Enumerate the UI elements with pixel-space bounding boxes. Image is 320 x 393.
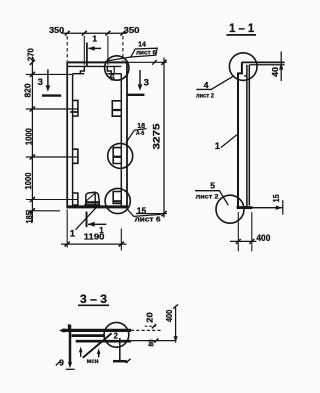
title underline 3-3 <box>78 304 109 306</box>
s33 400 arrowhead down <box>174 336 178 342</box>
s11 leader 5 <box>195 191 228 206</box>
svg-text:мсн: мсн <box>87 358 99 365</box>
svg-text:5: 5 <box>210 181 215 191</box>
hatched dome part <box>86 192 100 207</box>
s33 top flange <box>62 329 131 332</box>
s11 leader 4 <box>196 76 233 89</box>
svg-text:400: 400 <box>165 309 174 322</box>
svg-text:15: 15 <box>272 194 281 202</box>
detail circle B <box>105 188 130 213</box>
right shoulder line <box>107 73 121 75</box>
level line 820 <box>26 108 78 110</box>
s33 flange left end arrow <box>59 328 65 332</box>
svg-text:185: 185 <box>25 211 34 224</box>
svg-text:1000: 1000 <box>23 172 33 189</box>
s11 40 arrowhead <box>279 63 283 70</box>
s11 flange bottom <box>249 64 284 66</box>
inner right wall <box>120 74 122 206</box>
top extension lines <box>66 36 68 61</box>
inner left wall <box>72 74 74 206</box>
svg-text:лист 2: лист 2 <box>196 194 219 201</box>
svg-text:лист 6: лист 6 <box>135 216 161 223</box>
s11 plate left edge with hook <box>238 62 242 206</box>
left wall tab 2 <box>73 149 78 163</box>
svg-text:3: 3 <box>38 77 43 88</box>
s33 up arrowheads <box>79 347 83 353</box>
svg-text:2: 2 <box>114 332 119 341</box>
level line 1000b <box>26 199 78 201</box>
s33 detail circle <box>104 322 129 347</box>
part 1 leader <box>76 206 98 230</box>
right wall tab 3 <box>113 192 121 204</box>
neck left wall <box>80 66 84 73</box>
s11 plate inner line <box>244 65 247 207</box>
member outer left edge <box>66 62 68 208</box>
svg-text:А-6: А-6 <box>136 130 145 137</box>
svg-text:6: 6 <box>110 73 115 83</box>
svg-text:15: 15 <box>137 206 147 216</box>
svg-text:40: 40 <box>270 67 280 77</box>
bottom dimension 1190 <box>66 210 68 248</box>
s33 top flange dashed extension <box>131 329 161 331</box>
detail circle top-right <box>105 56 129 80</box>
section1 bottom arrowhead <box>88 222 95 227</box>
left wall tab 3 <box>73 193 78 205</box>
svg-text:20: 20 <box>145 312 154 323</box>
level line bottom <box>26 210 60 212</box>
s33 upper small dashed line <box>145 325 158 327</box>
flag 14 leader <box>109 48 158 60</box>
top dimension line 350/350 <box>61 32 126 34</box>
svg-text:3: 3 <box>144 78 149 89</box>
section mark 3 right arrow <box>139 70 141 86</box>
svg-text:1: 1 <box>99 226 104 235</box>
s33 diagonal <box>83 333 112 358</box>
svg-text:3275: 3275 <box>152 124 162 150</box>
svg-text:350: 350 <box>124 26 141 35</box>
svg-text:18: 18 <box>137 123 145 130</box>
section mark 3 left arrow <box>47 69 49 87</box>
s33 vertical dim 400 line <box>175 306 177 343</box>
flag 18 leader <box>126 129 147 143</box>
s33 up arrow 2 <box>98 351 100 357</box>
s11 flange top <box>242 61 285 63</box>
member bottom edge <box>67 205 128 208</box>
svg-text:1000: 1000 <box>23 128 33 145</box>
s11 dim 400 <box>237 212 239 251</box>
s11 circle bottom <box>216 195 244 223</box>
section1 top arrowhead <box>88 46 95 51</box>
svg-text:400: 400 <box>256 233 270 243</box>
s11 bottom foot <box>237 206 253 209</box>
level line 270 <box>26 73 73 75</box>
s11 leader 1 <box>221 135 237 148</box>
s33 bottom flange extension <box>131 340 176 342</box>
section3 right arrowhead <box>138 84 143 90</box>
s33 T foot <box>113 360 127 363</box>
svg-text:14: 14 <box>138 42 146 49</box>
level line 1000a <box>26 156 78 158</box>
svg-text:9: 9 <box>59 358 64 368</box>
detail circle A <box>108 143 133 168</box>
svg-text:1: 1 <box>215 141 220 151</box>
s33 bolt <box>119 338 121 361</box>
title underline 1-1 <box>226 34 256 36</box>
member top plate underside <box>67 65 121 67</box>
s33 up arrow 1 <box>80 350 82 357</box>
left wall tab 1 <box>73 100 78 116</box>
svg-text:350: 350 <box>49 26 65 35</box>
s11 15 arrowhead <box>276 206 283 210</box>
svg-text:3 – 3: 3 – 3 <box>80 294 107 306</box>
section3 left arrowhead <box>46 85 51 91</box>
s11 plate right edge <box>248 65 250 206</box>
s33 left plate arrowhead <box>68 362 72 368</box>
s33 middle band <box>72 334 105 337</box>
svg-text:лист 6: лист 6 <box>136 50 157 57</box>
s11 dim 40 line <box>280 52 282 82</box>
flag 15 leader <box>127 208 161 216</box>
chain tick marks <box>30 60 35 214</box>
s33 tick near 9 <box>56 362 60 366</box>
extension to 3275 bottom <box>136 213 167 215</box>
section mark 1 bottom <box>86 212 88 228</box>
s33 bottom flange <box>76 340 131 343</box>
extension to 3275 top <box>127 61 167 63</box>
neck right wall <box>107 66 111 73</box>
svg-text:1: 1 <box>70 228 75 238</box>
s11 circle top <box>229 53 257 81</box>
svg-text:4: 4 <box>204 80 209 90</box>
left dimension chain line <box>31 57 33 223</box>
right wall tab 1 <box>112 101 121 116</box>
s33 left plate <box>69 325 72 363</box>
s33 left stub <box>68 324 70 329</box>
section mark 1 top <box>86 43 88 67</box>
member top plate line <box>67 61 128 63</box>
svg-text:270: 270 <box>26 48 36 61</box>
svg-text:820: 820 <box>22 83 32 97</box>
svg-text:лист 2: лист 2 <box>196 93 214 100</box>
member outer right edge <box>126 62 128 208</box>
svg-text:1 – 1: 1 – 1 <box>229 23 255 35</box>
corner stub in top-right detail <box>113 66 115 73</box>
s11 weld line right <box>252 207 282 209</box>
svg-text:1: 1 <box>92 34 97 44</box>
s33 foot mini arrowhead <box>125 361 128 364</box>
left shoulder line <box>73 73 85 75</box>
right dimension 3275 line <box>163 58 165 218</box>
right wall tab 2 <box>113 148 121 164</box>
svg-text:80: 80 <box>149 339 156 346</box>
